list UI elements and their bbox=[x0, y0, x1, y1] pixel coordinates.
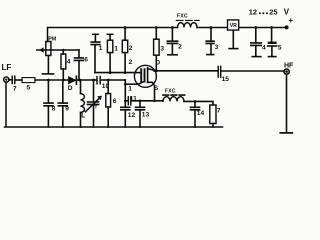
svg-text:7: 7 bbox=[217, 107, 221, 114]
svg-text:VR: VR bbox=[230, 23, 237, 29]
svg-text:11: 11 bbox=[130, 95, 137, 102]
svg-text:4: 4 bbox=[67, 59, 71, 66]
svg-text:FXC: FXC bbox=[177, 14, 188, 20]
svg-text:2: 2 bbox=[178, 43, 182, 50]
svg-text:3: 3 bbox=[215, 44, 219, 51]
svg-text:1225V: 1225V bbox=[249, 7, 290, 16]
svg-text:S: S bbox=[154, 85, 159, 92]
svg-text:1: 1 bbox=[99, 45, 103, 52]
svg-text:1: 1 bbox=[114, 45, 118, 52]
svg-text:13: 13 bbox=[142, 111, 150, 118]
svg-text:FXC: FXC bbox=[165, 88, 176, 94]
svg-text:D: D bbox=[68, 85, 73, 92]
svg-text:L: L bbox=[81, 113, 85, 120]
svg-text:6: 6 bbox=[113, 98, 117, 105]
svg-text:2: 2 bbox=[129, 59, 133, 66]
svg-text:7: 7 bbox=[13, 86, 17, 93]
svg-text:HF: HF bbox=[284, 63, 294, 70]
svg-text:12: 12 bbox=[128, 112, 136, 119]
svg-text:3: 3 bbox=[160, 45, 164, 52]
svg-text:1: 1 bbox=[128, 85, 132, 92]
svg-text:4: 4 bbox=[262, 44, 266, 51]
svg-text:10: 10 bbox=[102, 83, 110, 90]
svg-text:PM: PM bbox=[48, 37, 57, 43]
svg-text:15: 15 bbox=[222, 76, 230, 83]
svg-text:T: T bbox=[95, 105, 98, 110]
svg-text:8: 8 bbox=[52, 106, 56, 113]
svg-text:14: 14 bbox=[197, 110, 205, 117]
svg-text:5: 5 bbox=[278, 45, 282, 52]
svg-text:LF: LF bbox=[2, 63, 12, 72]
svg-text:D: D bbox=[155, 59, 160, 66]
svg-text:2: 2 bbox=[129, 45, 133, 52]
svg-text:5: 5 bbox=[27, 85, 31, 92]
svg-text:+: + bbox=[288, 16, 293, 25]
svg-text:6: 6 bbox=[84, 57, 88, 64]
svg-text:9: 9 bbox=[65, 106, 69, 113]
